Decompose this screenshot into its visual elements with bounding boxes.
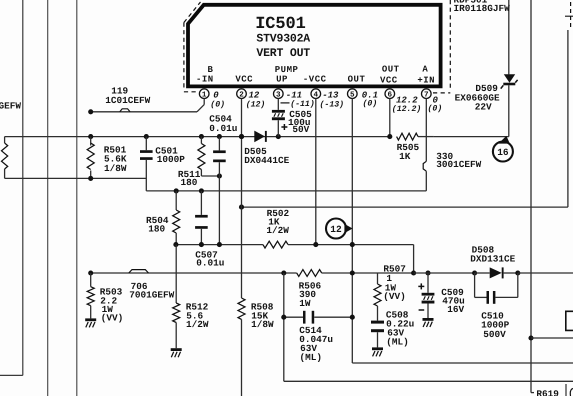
wire [531,337,573,339]
node junction [199,134,204,139]
D509 label [455,83,500,113]
node junction [411,270,416,275]
R619 label [536,388,559,396]
node 12 [326,219,353,239]
wire (top right stub) [565,2,573,30]
svg-text:1/2W: 1/2W [266,225,289,236]
pin label OUT VCC [380,65,400,86]
IC501 title [255,15,306,34]
node junction [88,270,93,275]
svg-text:+IN: +IN [417,75,435,85]
label IR0118GJFW [454,3,511,14]
node junction [281,270,286,275]
C504 label [209,114,237,134]
capacitor C514 [284,311,353,324]
svg-text:DXD131CE: DXD131CE [470,253,515,264]
svg-text:-11: -11 [286,90,302,100]
svg-text:180: 180 [148,224,165,235]
capacitor C509 [422,273,435,318]
svg-text:7001GEFW: 7001GEFW [129,289,174,300]
svg-text:16V: 16V [447,304,464,315]
label GEFW [0,101,21,112]
wire pin3 [277,99,279,110]
svg-text:GEFW: GEFW [0,101,21,112]
pin 3 voltage label [281,90,315,109]
node junction [217,173,222,178]
svg-text:VCC: VCC [235,75,253,85]
pin 2 voltage label [246,91,266,110]
R506 label [299,280,322,309]
R502 label [266,208,289,236]
capacitor C510 [475,273,518,304]
svg-text:(-11): (-11) [290,100,315,109]
node junction [350,270,355,275]
resistor R512 [173,245,180,349]
svg-text:R619: R619 [536,388,559,396]
wire A (R501/C501 bottoms) [5,177,147,179]
svg-text:-IN: -IN [196,75,214,85]
pin 6 of IC501 [385,88,395,99]
pin label A +IN [417,65,435,86]
jumper 706 label [129,281,174,301]
svg-text:1W: 1W [299,298,311,309]
node junction [350,242,355,247]
svg-text:OUT: OUT [382,65,400,75]
wire [322,272,414,274]
pin 4 of IC501 [311,88,321,99]
wire [76,0,78,396]
D505 label [244,146,289,166]
svg-text:1000P: 1000P [157,154,186,165]
resistor R501 [87,137,94,179]
wire B-IN main [5,136,390,138]
jumper 330 [423,161,426,171]
resistor (left edge) [2,137,8,179]
svg-text:5: 5 [350,92,355,100]
resistor R511 [198,137,220,176]
node 16 [493,136,513,162]
R504 label [146,215,169,235]
C507 label [195,249,224,268]
R508 label [251,302,274,331]
R507 label [383,264,406,303]
pin 7 of IC501 [422,88,432,99]
node junction [199,242,204,247]
jumper 706 [129,270,149,273]
zener diode D509 [501,74,518,88]
svg-text:12: 12 [249,91,260,101]
svg-text:22V: 22V [475,102,492,113]
wire (corner arc) [570,389,573,396]
svg-text:-VCC: -VCC [303,75,327,85]
svg-text:OUT: OUT [348,75,366,85]
svg-text:12: 12 [330,224,342,235]
node junction [313,242,318,247]
svg-text:(0): (0) [210,101,225,110]
C509 plus sign [418,283,424,289]
wire [22,0,24,375]
op-amp U1 IC501 outline [188,5,441,87]
wire [565,384,567,396]
pin 6 voltage label [392,96,421,114]
ground [171,348,182,357]
svg-text:6: 6 [388,91,393,100]
C514 label [299,325,333,363]
pin 2 of IC501 [237,88,247,99]
node junction [88,109,93,114]
svg-text:(12): (12) [246,101,266,110]
svg-text:(0): (0) [363,100,378,109]
node junction [88,134,93,139]
node junction [88,176,93,181]
pin 1 voltage label [210,91,225,110]
pin 5 of IC501 [348,88,358,99]
node junction [515,270,520,275]
svg-text:4: 4 [314,92,319,100]
node junction [174,188,179,193]
pin label OUT [348,75,366,85]
resistor R508 [238,298,245,319]
IC501 module dashed outline right [433,0,450,93]
node junction [217,134,222,139]
C510 label [481,310,510,339]
pin label VCC [235,75,253,85]
resistor R503 [87,273,94,318]
wire [434,136,509,138]
ground [423,318,434,327]
svg-text:(0): (0) [428,105,443,114]
wire OUT row [176,244,263,246]
svg-text:VERT OUT: VERT OUT [256,47,310,60]
wire D509 net [508,0,510,137]
IC501 function [256,47,310,60]
node junction [239,134,244,139]
svg-text:(ML): (ML) [300,352,323,363]
svg-text:(-13): (-13) [320,101,345,110]
node junction [217,242,222,247]
pin label -VCC [303,75,327,85]
resistor R506 [297,270,322,277]
svg-text:50V: 50V [292,124,309,135]
capacitor C507 [195,191,208,245]
wire [518,272,573,274]
label TDP501 (cut) [454,0,488,5]
node junction [239,134,244,139]
R503 label [100,286,124,323]
C509 minus sign [419,309,425,311]
connector box (right edge) [566,311,573,330]
node junction [528,335,533,340]
svg-text:(VV): (VV) [383,291,406,302]
wire [47,0,49,396]
pin 3 of IC501 [274,88,284,99]
wire [288,245,414,273]
resistor R504 [173,191,180,245]
resistor R505 [397,133,418,140]
svg-text:1/2W: 1/2W [186,319,209,330]
wire pin6 [389,99,391,137]
svg-text:IR0118GJFW: IR0118GJFW [454,3,511,14]
svg-text:1/8W: 1/8W [104,163,127,174]
svg-text:3: 3 [276,91,281,100]
C505 plus sign [281,124,287,130]
wire [284,273,573,381]
svg-text:(ML): (ML) [386,336,409,347]
svg-text:(12.2): (12.2) [392,105,421,114]
pin 1 of IC501 [199,88,209,99]
wire [418,136,434,138]
svg-text:A: A [422,65,428,75]
svg-text:UP: UP [276,75,288,85]
jumper 119 label [105,85,150,106]
D508 label [470,244,515,264]
C508 label [386,310,414,348]
R511 label [178,169,201,188]
ground [372,347,383,356]
node junction [281,315,286,320]
IC501 part number [256,32,310,45]
node junction [199,188,204,193]
node junction [173,242,178,247]
svg-text:16: 16 [497,147,509,158]
R512 label [186,302,209,331]
wire [531,0,534,393]
svg-text:1/8W: 1/8W [251,319,274,330]
pin 5 voltage label [362,91,378,109]
capacitor C504 [213,137,226,245]
svg-text:3001CEFW: 3001CEFW [436,159,481,170]
node junction [425,270,430,275]
svg-text:VCC: VCC [380,75,398,85]
ground [85,318,96,327]
pin 4 voltage label [320,91,345,110]
diode D505 [254,131,266,143]
wire pin4 [315,99,317,245]
C509 label [441,287,465,315]
node junction [144,134,149,139]
wire pin2 VCC [241,99,243,396]
wire pin1 to node [91,99,205,112]
jumper 330 label [436,151,481,170]
svg-text:1C01CEFW: 1C01CEFW [105,95,150,106]
svg-text:0: 0 [213,91,219,101]
C501 label [155,145,185,165]
svg-text:DX0441CE: DX0441CE [244,155,289,166]
svg-text:0.01u: 0.01u [209,123,237,134]
resistor R507 [374,273,381,321]
wire pump row [91,272,297,274]
wire [242,30,568,207]
svg-text:500V: 500V [483,329,506,340]
svg-text:180: 180 [181,177,198,188]
pin 7 voltage label [428,96,443,114]
capacitor C501 [140,137,153,191]
C505 label [288,109,312,135]
node junction [472,270,477,275]
R501 label [104,144,127,174]
node junction [276,134,281,139]
node junction [239,205,244,210]
pin label B -IN [196,65,214,84]
diode D508 [475,267,518,278]
svg-text:(VV): (VV) [101,312,124,323]
node junction [387,134,392,139]
pin label PUMP UP [275,65,299,84]
capacitor C505 [272,110,285,137]
svg-text:1: 1 [202,92,207,100]
svg-text:0.01u: 0.01u [196,257,224,268]
resistor R502 [263,241,288,248]
node junction [350,315,355,320]
capacitor C508 [371,321,384,348]
wire pin5 OUT [352,99,573,364]
svg-text:2: 2 [239,91,244,100]
svg-text:1K: 1K [399,151,411,162]
wire pin7 A+IN [146,99,426,191]
wire [0,374,23,376]
wire [414,272,475,274]
svg-text:7: 7 [424,92,429,100]
svg-text:-13: -13 [322,91,339,101]
IC501 module dashed outline left [184,2,201,92]
svg-text:STV9302A: STV9302A [256,32,310,45]
R505 label [397,142,420,162]
jumper 119 [120,109,130,112]
